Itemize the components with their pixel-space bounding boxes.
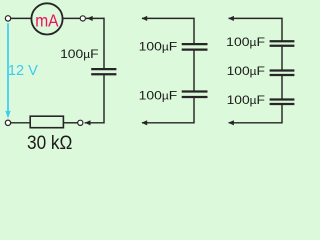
svg-text:100µF: 100µF [60,47,99,61]
svg-text:mA: mA [35,10,58,30]
svg-text:100µF: 100µF [226,35,265,49]
svg-text:30 kΩ: 30 kΩ [27,132,72,150]
svg-text:100µF: 100µF [139,40,178,54]
capacitor C6 plates 100uF [270,98,295,100]
current arrow on bottom wire [85,120,91,125]
terminal (top right of meter) [80,16,85,21]
terminal (bottom, right of resistor) [78,120,83,125]
svg-text:12 V: 12 V [8,62,38,79]
arrow (right top) [228,16,234,21]
capacitor C4 plates 100uF [270,40,295,42]
resistor R1 30k body [30,116,63,128]
wire: terminal to top-right corner [86,17,104,19]
wire top-left: terminal to meter [11,17,32,19]
wire: meter to top-right terminal [62,17,80,19]
middle branch: top wire with arrow [142,18,194,44]
arrow (right bottom) [228,120,234,125]
arrow (middle top) [141,16,147,21]
wire: terminal to resistor [64,122,78,124]
capacitor C5 plates 100uF [270,69,295,71]
wire: right rail down to capacitor C1 [103,18,105,70]
wire between C2 and C3 [193,50,195,92]
capacitor C2 plates 100uF [182,43,208,45]
svg-text:100µF: 100µF [227,93,266,107]
ammeter M1 circle [31,3,62,34]
terminal (top left) [5,16,10,21]
voltage arrow 12V (cyan) [7,23,9,111]
current arrow on top wire [87,16,93,21]
right branch: top wire with arrow [229,18,282,41]
right branch: bottom wire [229,104,282,123]
svg-text:100µF: 100µF [227,64,266,78]
middle branch: bottom wire [142,97,194,123]
arrow (middle bottom) [141,120,147,125]
terminal (bottom left) [5,120,10,125]
wire: resistor to bottom-left terminal [11,122,30,124]
capacitor C1 plates 100uF [91,68,116,70]
wire: capacitor down to bottom-right corner [85,74,104,123]
capacitor C3 plates 100uF [182,90,208,92]
wire between C5 and C6 [281,75,283,100]
wire between C4 and C5 [281,46,283,71]
svg-text:100µF: 100µF [139,89,178,103]
